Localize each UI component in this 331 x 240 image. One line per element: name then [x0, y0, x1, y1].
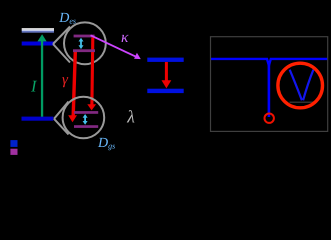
svg-text:λ: λ [126, 106, 135, 126]
svg-text:κ: κ [121, 29, 129, 46]
